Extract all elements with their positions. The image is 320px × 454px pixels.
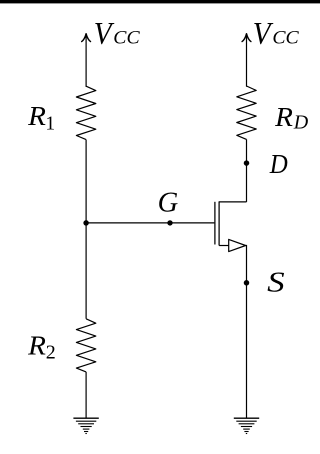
wire source lead horizontal (219, 245, 229, 247)
top rule (0, 0, 320, 3)
resistor R2 (76, 319, 95, 372)
label VCC (left) (94, 15, 140, 51)
wire left (R2 bottom to ground) (85, 372, 87, 418)
wire drain lead horizontal (219, 201, 246, 203)
svg-text:2: 2 (46, 341, 56, 363)
label R1 (27, 100, 55, 134)
resistor R1 (76, 86, 95, 139)
svg-text:S: S (267, 266, 285, 298)
svg-text:D: D (293, 111, 309, 133)
svg-text:CC: CC (113, 28, 140, 49)
resistor RD (237, 86, 256, 139)
svg-text:CC: CC (272, 28, 299, 49)
transistor M1 channel bar (218, 201, 220, 245)
svg-text:G: G (158, 188, 179, 219)
svg-text:V: V (253, 15, 274, 51)
wire drain vertical (RD bottom to drain lead) (246, 139, 248, 202)
transistor M1 gate bar (214, 202, 216, 245)
svg-text:R: R (27, 330, 46, 361)
svg-text:R: R (27, 100, 46, 131)
svg-text:1: 1 (45, 113, 55, 134)
node S (244, 280, 250, 286)
wire gate horizontal (86, 222, 214, 224)
supply arrow VCC (left) (82, 34, 91, 87)
ground (right) (234, 418, 259, 433)
supply arrow VCC (right) (242, 34, 251, 86)
node junction (left) (83, 220, 89, 226)
svg-text:R: R (274, 101, 293, 132)
wire left vertical (R1 bottom to R2 top) (85, 140, 87, 319)
node G (167, 220, 172, 225)
label VCC (right) (253, 15, 299, 51)
ground (left) (73, 418, 98, 433)
label R2 (27, 330, 56, 364)
label RD (274, 101, 309, 133)
svg-text:D: D (269, 148, 288, 179)
node D (244, 160, 250, 166)
svg-text:V: V (94, 15, 115, 51)
wire source corner to ground (245, 246, 248, 419)
transistor M1 source arrow (229, 239, 246, 251)
